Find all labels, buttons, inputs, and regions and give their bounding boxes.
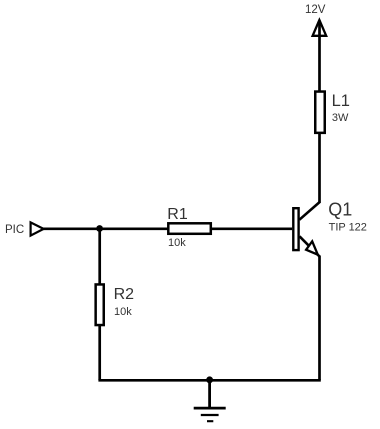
svg-text:R1: R1 bbox=[167, 206, 188, 223]
svg-text:10k: 10k bbox=[114, 306, 132, 318]
svg-text:12V: 12V bbox=[305, 4, 326, 16]
svg-text:L1: L1 bbox=[332, 92, 350, 110]
svg-text:R2: R2 bbox=[114, 286, 135, 303]
svg-text:PIC: PIC bbox=[5, 224, 24, 236]
svg-text:10k: 10k bbox=[168, 237, 186, 249]
svg-text:TIP 122: TIP 122 bbox=[329, 221, 367, 233]
svg-text:Q1: Q1 bbox=[328, 200, 352, 220]
svg-text:3W: 3W bbox=[332, 112, 349, 124]
